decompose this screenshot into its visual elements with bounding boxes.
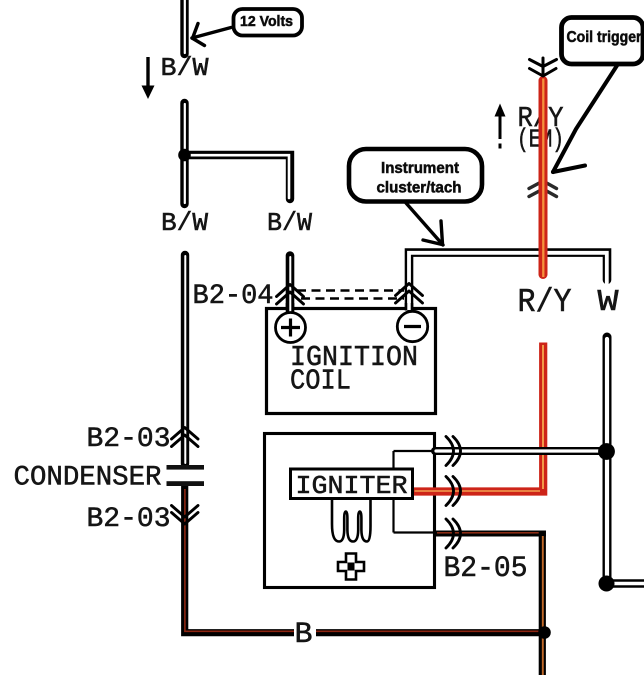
svg-text:cluster/tach: cluster/tach: [377, 180, 462, 197]
svg-text:B/W: B/W: [161, 53, 209, 83]
svg-text:R/Y: R/Y: [518, 284, 572, 321]
svg-text:IGNITER: IGNITER: [296, 471, 408, 501]
svg-text:B: B: [295, 617, 313, 651]
svg-text:Coil trigger: Coil trigger: [567, 29, 642, 46]
svg-text:B2-03: B2-03: [87, 424, 171, 455]
svg-text:COIL: COIL: [290, 365, 351, 398]
svg-text:B2-04: B2-04: [193, 281, 274, 312]
svg-text:B/W: B/W: [161, 208, 208, 238]
svg-text:B2-05: B2-05: [444, 551, 528, 585]
svg-text:Instrument: Instrument: [381, 160, 460, 177]
svg-text:W: W: [598, 285, 619, 320]
svg-text:CONDENSER: CONDENSER: [14, 463, 162, 494]
svg-text:12 Volts: 12 Volts: [240, 14, 293, 30]
svg-text:B/W: B/W: [267, 208, 312, 238]
svg-text:B2-03: B2-03: [87, 504, 171, 535]
